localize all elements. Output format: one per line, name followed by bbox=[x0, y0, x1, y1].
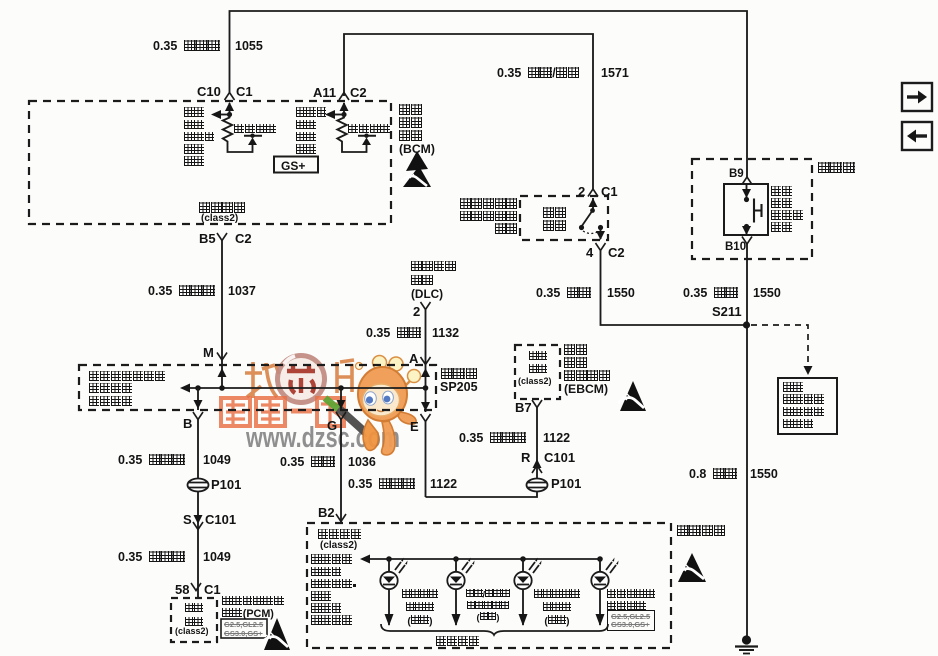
serial data brace bbox=[381, 624, 608, 635]
GS+ label bbox=[281, 160, 305, 172]
node at BCM A11 input bbox=[341, 112, 346, 117]
LED4 label 脚制动未松开报警灯 bbox=[607, 589, 656, 612]
LED3 label 安全带未扣报警灯（红色） bbox=[530, 589, 584, 628]
traction/fog switch label 电子牵引力控制和雾灯开关 bbox=[450, 198, 518, 235]
ignition feed arrow and bar (right) bbox=[362, 138, 371, 146]
switch bottom contact with down arrow bbox=[744, 224, 749, 229]
pin label 2 | C1 at switch bbox=[578, 185, 585, 198]
LED1 label 安全防盗指示器（红色） bbox=[396, 589, 444, 628]
pin label C10 | C1 bbox=[197, 85, 221, 98]
cluster serial data bus wire bbox=[364, 558, 600, 560]
up arrow on A entry inside splice box bbox=[421, 368, 430, 377]
DLC pin 2 chevron bbox=[421, 302, 431, 310]
EBCM name 电子制动控制模块(EBCM) bbox=[564, 344, 611, 396]
connector chevron at node E bbox=[421, 414, 431, 422]
wire label 0.35 黑色 1550 (right) bbox=[683, 287, 738, 300]
wire label 0.35 深绿色 1049 (upper) bbox=[118, 454, 185, 467]
pin label B7 bbox=[515, 401, 532, 414]
ground distribution note box bbox=[778, 378, 837, 434]
resistor (BCM pull-up, right) bbox=[337, 115, 366, 153]
node label A bbox=[409, 352, 418, 365]
momentary contact label 瞬时接触 bbox=[543, 207, 566, 232]
wire G exit with down arrow bbox=[340, 388, 342, 410]
connector C2 chevron at switch pin 4 bbox=[596, 243, 606, 251]
cluster label 组合仪表 bbox=[677, 525, 726, 538]
wire E exit with down arrow bbox=[425, 388, 427, 412]
push-button actuator symbol bbox=[754, 199, 762, 223]
label 点火电源 (right) bbox=[348, 124, 391, 136]
node label B bbox=[183, 417, 192, 430]
connector chevron at node G bbox=[336, 412, 346, 420]
EBCM serial data label 串行数据 (class2) bbox=[521, 351, 555, 377]
GS+ label box bbox=[274, 157, 318, 173]
momentary switch lever and contacts bbox=[579, 208, 603, 233]
ESD symbol at PCM bbox=[262, 618, 290, 650]
grommet P101 (left) bbox=[188, 479, 209, 492]
tire inflation reset switch solid box bbox=[724, 184, 768, 235]
dashed reference line from S211 to ground distribution note bbox=[751, 325, 808, 365]
switch output wire with down arrow bbox=[600, 229, 602, 239]
BCM input label 牵引力控制请求输入 bbox=[296, 107, 327, 156]
instrument cluster dashed box bbox=[307, 523, 671, 648]
connector C1 chevron at BCM pin C10 bbox=[225, 93, 235, 101]
BCM input label 轮胎充气重设定开关输入 bbox=[184, 107, 215, 168]
left arrow terminating splice bus bbox=[180, 384, 190, 393]
wire label 0.35 浅绿色 1055 bbox=[153, 40, 220, 53]
connector chevron at node B bbox=[193, 412, 203, 420]
connector chevron at node M bbox=[217, 353, 227, 361]
pin label 58 | C1 bbox=[175, 583, 189, 596]
LED2 label 车门/行李厢打开指示灯（红色） bbox=[462, 589, 514, 624]
wire label 0.35 黑色 1550 (left) bbox=[536, 287, 591, 300]
connector C2 chevron at BCM pin A11 bbox=[339, 93, 349, 101]
node at BCM C10 input bbox=[227, 112, 232, 117]
wire label 0.8 黑色 1550 bbox=[689, 468, 737, 481]
wire label 0.35 浅蓝色 1122 (EBCM) bbox=[459, 432, 526, 445]
splice S211 junction dot bbox=[743, 321, 750, 328]
wire 1550 from B10 down to S211 and ground bbox=[746, 244, 748, 636]
wire 1571 inner run: C2 up, across, down to switch pin 2 bbox=[344, 34, 593, 189]
wire label 0.35 灰色 1036 bbox=[280, 456, 335, 469]
BCM module name 车身控制模块(BCM) bbox=[399, 104, 435, 156]
connector C1 chevron at switch pin 2 bbox=[588, 189, 598, 197]
pin label 4 | C2 at switch bbox=[586, 246, 593, 259]
node E junction dot bbox=[423, 385, 429, 391]
ESD symbol at BCM bbox=[401, 151, 431, 187]
watermark char 片 bbox=[337, 360, 354, 393]
PCM serial data dashed box bbox=[171, 598, 217, 642]
cluster serial data label 串行数据 (class2) bbox=[318, 529, 362, 542]
fuse box label 熔丝盒 bbox=[818, 161, 855, 174]
label 点火电源 (left) bbox=[234, 124, 277, 136]
PCM variant text bbox=[224, 621, 263, 638]
connector chevron at node A bbox=[421, 357, 431, 365]
cluster note 仪表组件示意图于仪表板、计量仪表和控制台中 bbox=[311, 554, 358, 627]
wire 1036 from G down to cluster B2 bbox=[340, 420, 342, 524]
node label G bbox=[327, 419, 337, 432]
wire 1122 from E down to junction bbox=[425, 422, 427, 498]
fuse box dashed box bbox=[692, 159, 812, 259]
fuse box pin B10 bbox=[725, 242, 746, 254]
watermark char 找 bbox=[245, 362, 279, 398]
signal arrow to tire-inflation-reset input label bbox=[216, 114, 230, 116]
connector C2 chevron at BCM pin B5 bbox=[217, 233, 227, 241]
splice label S211 bbox=[712, 305, 742, 318]
LED branch 4 (parking brake warning) bbox=[591, 556, 618, 626]
LED branch 3 (seat belt warning) bbox=[514, 556, 541, 626]
grommet P101 (right) bbox=[527, 479, 548, 492]
tire inflation reset switch label 轮胎充气重设定开关 bbox=[771, 186, 804, 234]
connector C101 (R) up arrow with chevron bbox=[533, 459, 542, 468]
EBCM serial data dashed box bbox=[515, 345, 560, 399]
ESD symbol at cluster bbox=[676, 553, 706, 582]
pin label A11 | C2 bbox=[313, 86, 336, 99]
connector chevron at EBCM pin B7 bbox=[532, 400, 542, 408]
up arrow on M entry inside splice box bbox=[218, 368, 227, 377]
connector chevron at fuse box B10 bbox=[742, 237, 752, 245]
switch top contact with down arrow bbox=[746, 184, 748, 198]
pin label S | C101 bbox=[183, 513, 192, 526]
ground note box label 线路系统中的接地分布示意图 bbox=[783, 382, 824, 431]
LED4 variant box bbox=[607, 610, 655, 631]
DLC pin 2 bbox=[413, 305, 420, 318]
pin label B2 bbox=[318, 506, 335, 519]
watermark magnifier with 芯 bbox=[278, 356, 325, 403]
page nav button prev bbox=[902, 122, 932, 150]
traction/fog switch dashed box bbox=[520, 196, 608, 240]
watermark mascot bbox=[325, 356, 421, 456]
page nav button next bbox=[902, 83, 932, 111]
ESD symbol at EBCM bbox=[618, 381, 646, 411]
wire 1132 from DLC pin 2 down to node A bbox=[425, 310, 427, 389]
grommet label P101 (right) bbox=[551, 477, 581, 490]
fuse box pin B9 bbox=[729, 169, 744, 181]
signal arrow to traction-control-request input label bbox=[330, 114, 344, 116]
LED branch 1 (security indicator) bbox=[380, 556, 407, 626]
wire 1055 top run: C1 up, across, down to fuse box B9 bbox=[230, 11, 748, 177]
wire label 0.35 紫色 1132 bbox=[366, 327, 421, 340]
wire label 0.35 浅绿色 1037 bbox=[148, 285, 215, 298]
DLC label 数据链路插头(DLC) bbox=[411, 259, 456, 301]
brace label 串行数据 bbox=[436, 636, 480, 649]
wire 1550 from switch pin 4 to S211 bbox=[601, 251, 747, 326]
splice label 组合件 SP205 bbox=[441, 368, 478, 381]
splice SP205 dashed box (data link connector view) bbox=[79, 365, 436, 410]
node B junction dot bbox=[195, 385, 201, 391]
left arrow terminating cluster bus bbox=[360, 555, 370, 564]
splice bus wire bbox=[184, 387, 426, 389]
switch input wire with up arrow bbox=[592, 198, 594, 210]
wire label 0.35 棕色/白色 1571 bbox=[497, 67, 580, 80]
BCM module dashed box bbox=[29, 101, 391, 224]
wire into BCM pin C10 with up arrow bbox=[229, 103, 231, 115]
ground G symbol bbox=[735, 635, 758, 653]
connector chevron at fuse box B9 bbox=[742, 177, 752, 185]
PCM serial data label 串行数据 (class2) bbox=[176, 603, 212, 630]
wire label 0.35 浅蓝色 1122 (E branch) bbox=[348, 478, 415, 491]
resistor (BCM pull-up, left) bbox=[223, 115, 253, 153]
node label E bbox=[410, 420, 419, 433]
wire B exit with down arrow bbox=[197, 388, 199, 410]
PCM variant label box bbox=[221, 619, 267, 638]
connector C101 (S) arrow down with chevron bbox=[194, 515, 203, 524]
splice box label 数据链路通信中数据链路插头视图 bbox=[89, 371, 165, 408]
ignition feed arrow and bar (left) bbox=[248, 138, 257, 146]
grommet label P101 (left) bbox=[211, 478, 241, 491]
LED branch 2 (door/trunk ajar indicator) bbox=[447, 556, 474, 626]
connector C1 chevron at PCM pin 58 bbox=[191, 583, 201, 591]
pin label B5 | C2 bbox=[199, 232, 216, 245]
connector chevron at cluster pin B2 bbox=[336, 514, 346, 522]
pin label R | C101 bbox=[521, 451, 530, 464]
node M junction dot bbox=[219, 385, 225, 391]
wire label 0.35 深绿色 1049 (lower) bbox=[118, 551, 185, 564]
node label M bbox=[203, 346, 214, 359]
wire 1037 from B5 down to splice box bbox=[221, 241, 223, 389]
BCM serial data label 串行数据 (class2) bbox=[199, 202, 246, 214]
watermark 维库一下 bbox=[221, 398, 344, 426]
wire 1122 from B7 down through C101/P101 to junction bbox=[426, 408, 538, 498]
wire into BCM pin A11 with up arrow bbox=[343, 103, 345, 115]
PCM name 动力总成控制模块（PCM） bbox=[222, 596, 284, 620]
node G junction dot bbox=[338, 385, 344, 391]
wire 1049 from B down through P101 to PCM 58/C1 bbox=[197, 420, 199, 599]
